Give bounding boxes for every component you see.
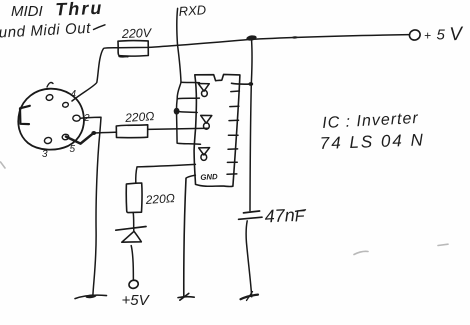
J1 pin 2	[73, 115, 80, 121]
resistor R3 box	[126, 183, 142, 213]
svg-text:RXD: RXD	[178, 2, 206, 19]
inverter gate 3	[199, 148, 210, 161]
resistor R1 box	[118, 41, 148, 57]
J1 pin 3	[44, 137, 53, 145]
wire R2 to inverter2 output bubble	[148, 128, 209, 129]
svg-text:+: +	[424, 29, 431, 43]
junction dot RXD / inverter2 input	[174, 108, 180, 115]
wire pin5 zigzag to R2 (bold)	[66, 133, 94, 144]
svg-text:5: 5	[70, 144, 76, 155]
wire pin5 blob to R2 left	[94, 131, 117, 134]
U1 right-side pin ticks	[227, 91, 239, 174]
svg-text:IC : Inverter: IC : Inverter	[322, 110, 419, 132]
diode D1 cathode bar	[116, 227, 146, 231]
J1 orientation flick above shell	[47, 83, 53, 87]
ground blob/dash at pin2 line bottom	[75, 294, 107, 299]
wire pin4 to R1 and +5V rail across top	[72, 35, 410, 101]
t crossbar flick of Out	[94, 25, 106, 30]
inverter gate 1	[198, 84, 209, 97]
U1 VCC pin wire to +5V rail	[232, 82, 252, 85]
svg-text:und Midi Out: und Midi Out	[0, 20, 92, 42]
RXD net vertical wire	[176, 8, 200, 144]
resistor R2 box	[116, 125, 147, 138]
ground foot mark of U1 GND line	[178, 293, 194, 300]
wire inverter3 output to R3	[136, 164, 196, 183]
capacitor C1 bottom plate	[239, 217, 262, 219]
U1 GND pin wire down to ground	[184, 175, 196, 297]
ground foot mark of C1 line	[241, 292, 259, 301]
J1 pin 4	[62, 102, 69, 108]
svg-text:5: 5	[437, 27, 446, 44]
svg-text:47n: 47n	[264, 205, 295, 227]
+5V terminal bottom	[128, 279, 139, 290]
+5V terminal top right	[408, 28, 422, 42]
svg-text:MIDI: MIDI	[11, 3, 43, 20]
C1 value 47nF	[264, 205, 306, 227]
small ink blob on wire	[292, 36, 298, 39]
inverter gate 2	[201, 115, 212, 129]
J1 pin 1	[45, 94, 53, 102]
wire D1 to +5V terminal	[131, 246, 133, 280]
J1 cable notch	[20, 106, 30, 124]
svg-text:220Ω: 220Ω	[144, 191, 175, 207]
wire C1 to bottom	[246, 221, 252, 297]
svg-text:V: V	[449, 23, 465, 45]
IC U1 74LS04 body	[194, 74, 240, 186]
diode D1 triangle	[122, 231, 142, 242]
wire inverter1 input stub	[181, 81, 200, 83]
+5V rail vertical down right side	[250, 41, 252, 211]
svg-text:74 LS 04 N: 74 LS 04 N	[319, 130, 425, 153]
wire R3 to diode D1	[132, 213, 135, 231]
R1 bottom-left squiggle	[119, 56, 128, 59]
svg-text:GND: GND	[200, 172, 218, 182]
svg-text:220Ω: 220Ω	[124, 109, 155, 125]
wire inverter2 input stub	[177, 112, 197, 113]
junction dot on +5V rail	[246, 35, 257, 42]
+5V label top right	[424, 23, 465, 45]
wire inverter1 output stub to RXD net	[177, 97, 199, 100]
J1 pin 5	[62, 134, 70, 141]
faint pencil smudges	[1, 162, 449, 255]
svg-text:Thru: Thru	[55, 0, 104, 20]
svg-text:3: 3	[42, 149, 48, 160]
svg-text:220V: 220V	[121, 26, 153, 41]
capacitor C1 top plate	[244, 211, 260, 213]
connector J1 DIN-5 socket outline	[18, 89, 84, 150]
wire pin2 right then down to ground	[81, 117, 102, 295]
svg-text:+5V: +5V	[122, 292, 151, 309]
title text MIDI Thru	[11, 0, 104, 20]
